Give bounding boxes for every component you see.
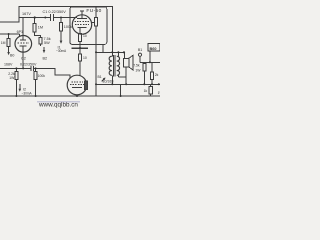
svg-text:1W: 1W (9, 76, 15, 80)
svg-text:2k: 2k (155, 73, 159, 77)
svg-text:10: 10 (83, 34, 87, 38)
svg-text:1k: 1k (144, 89, 148, 93)
svg-text:100k: 100k (64, 25, 72, 29)
svg-text:1W: 1W (135, 68, 141, 72)
svg-text:B2: B2 (43, 56, 48, 60)
svg-text:1M: 1M (1, 41, 6, 45)
svg-text:B60: B60 (150, 47, 157, 51)
svg-text:0.22/350V: 0.22/350V (20, 63, 37, 67)
svg-text:167V: 167V (22, 12, 31, 16)
svg-text:10: 10 (83, 56, 87, 60)
svg-text:6P1: 6P1 (17, 30, 23, 34)
svg-text:www.qqlbb.cn: www.qqlbb.cn (38, 101, 78, 108)
svg-text:1W: 1W (158, 91, 160, 95)
svg-text:B1: B1 (138, 48, 142, 52)
svg-text:C2: C2 (21, 56, 26, 60)
svg-text:~30mA: ~30mA (22, 92, 33, 96)
svg-text:7.5k: 7.5k (133, 64, 140, 68)
svg-text:5W: 5W (44, 41, 50, 45)
svg-text:1M: 1M (38, 25, 43, 29)
svg-text:C1 0.22/350V: C1 0.22/350V (43, 10, 67, 14)
svg-text:8Ω/16Ω: 8Ω/16Ω (103, 79, 115, 83)
svg-text:~30mA: ~30mA (56, 49, 67, 53)
svg-text:B1: B1 (98, 75, 102, 79)
svg-text:168V: 168V (4, 63, 13, 67)
svg-text:FU-50: FU-50 (86, 8, 101, 14)
svg-text:100k: 100k (38, 74, 46, 78)
svg-text:B0: B0 (10, 53, 14, 57)
